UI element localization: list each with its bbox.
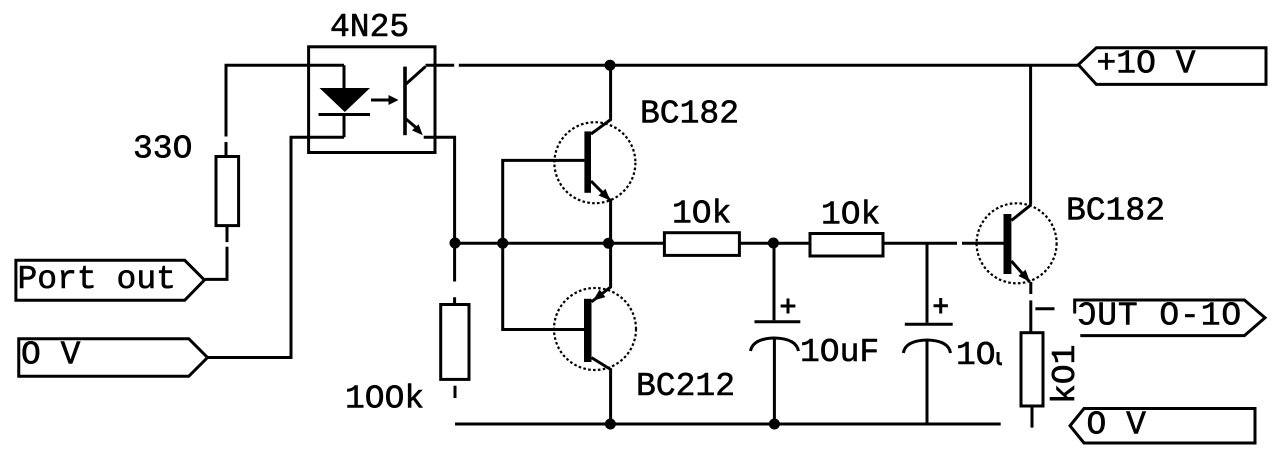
svg-text:BC212: BC212	[636, 368, 735, 405]
wire 330 resistor to Port out flag	[205, 226, 227, 280]
Q3 collector	[1011, 205, 1031, 221]
wire from 330 resistor up and to LED anode	[226, 65, 344, 156]
svg-text:BC182: BC182	[640, 96, 739, 133]
label 10u clipped	[956, 337, 1002, 374]
resistor 10k horizontal 1 body	[664, 233, 739, 256]
capacitor C1 plus sign	[781, 299, 796, 314]
connector flag +10 V	[1078, 48, 1266, 85]
LED D1 inside optocoupler	[319, 65, 371, 137]
svg-text:1O: 1O	[956, 337, 996, 374]
junction dot top rail Q1 collector	[605, 60, 616, 71]
top +10V rail	[426, 64, 1079, 67]
wire rail to capacitor C1	[773, 243, 776, 320]
svg-text:O V: O V	[21, 337, 81, 374]
wire Q1 base and Q2 base tee	[503, 160, 585, 329]
wire LED cathode down-left to 0V flag	[208, 137, 345, 357]
junction dot rail x503	[497, 238, 508, 249]
junction dot ground x774	[769, 419, 780, 430]
wire C2 to ground	[926, 340, 929, 424]
ground rail	[455, 423, 1001, 426]
resistor 10k horizontal 2 body	[810, 234, 883, 257]
junction dot emitter / 100k / base rail	[450, 238, 461, 249]
svg-text:1Ok: 1Ok	[821, 197, 880, 234]
junction dot rail x773	[768, 238, 779, 249]
junction dot ground x610	[605, 419, 616, 430]
svg-text:kO1: kO1	[1047, 345, 1084, 404]
Q3 emitter dashed wire down	[1029, 282, 1032, 333]
Q2 collector bottom	[592, 358, 611, 424]
capacitor C1 top plate	[755, 320, 801, 323]
svg-text:4N25: 4N25	[330, 9, 409, 46]
connector flag 0 V right	[1070, 409, 1255, 444]
Q3 emitter with arrow	[1011, 261, 1030, 282]
capacitor C2 top plate	[905, 323, 953, 326]
resistor 10k vertical body	[1021, 333, 1043, 406]
Q2 base bar	[584, 299, 592, 362]
wire 10k vertical bottom lead	[1031, 406, 1034, 428]
Q3 base bar	[1004, 214, 1012, 274]
Q1 base bar	[584, 131, 591, 192]
Q1 collector	[591, 65, 611, 134]
svg-text:O V: O V	[1087, 407, 1147, 444]
connector flag Port out	[16, 260, 205, 300]
svg-text:33O: 33O	[133, 131, 192, 168]
transistor Q1 circle	[554, 122, 635, 203]
wire rail to capacitor C2	[926, 243, 929, 323]
transistor Q2 circle	[554, 288, 636, 370]
capacitor C1 bottom plate	[751, 338, 799, 351]
svg-text:Port out: Port out	[18, 261, 176, 298]
wire C1 to ground	[773, 338, 776, 424]
svg-text:OUT O-1O: OUT O-1O	[1077, 298, 1243, 335]
svg-text:1OuF: 1OuF	[800, 334, 879, 371]
svg-text:BC182: BC182	[1066, 193, 1165, 230]
svg-text:+1O V: +1O V	[1097, 46, 1196, 83]
light arrow inside optocoupler	[371, 95, 399, 105]
Q2 emitter top with arrow into base	[592, 243, 611, 302]
svg-text:1OOk: 1OOk	[345, 381, 424, 418]
connector flag 0 V left	[19, 339, 208, 377]
dash toward OUT flag	[1035, 307, 1054, 310]
capacitor C2 plus sign	[934, 298, 948, 314]
white cut making first O look open	[1076, 307, 1083, 319]
capacitor C2 bottom plate	[903, 340, 950, 353]
Q1 emitter with arrow	[591, 181, 611, 243]
junction dot rail x608	[603, 238, 614, 249]
connector flag OUT 0-10 outline	[1075, 300, 1265, 336]
resistor 330 body	[216, 157, 239, 226]
wire opto emitter to 100k resistor	[424, 137, 455, 304]
wire 100k to ground rail (dash)	[454, 386, 457, 398]
middle base rail	[456, 242, 1004, 245]
opto phototransistor	[403, 67, 425, 136]
svg-text:1Ok: 1Ok	[672, 196, 731, 233]
optocoupler U1 4N25 body	[309, 47, 435, 153]
transistor Q3 circle	[977, 203, 1057, 283]
resistor 100k body	[441, 305, 469, 380]
wire +10V rail down to Q3 collector	[1029, 65, 1032, 205]
